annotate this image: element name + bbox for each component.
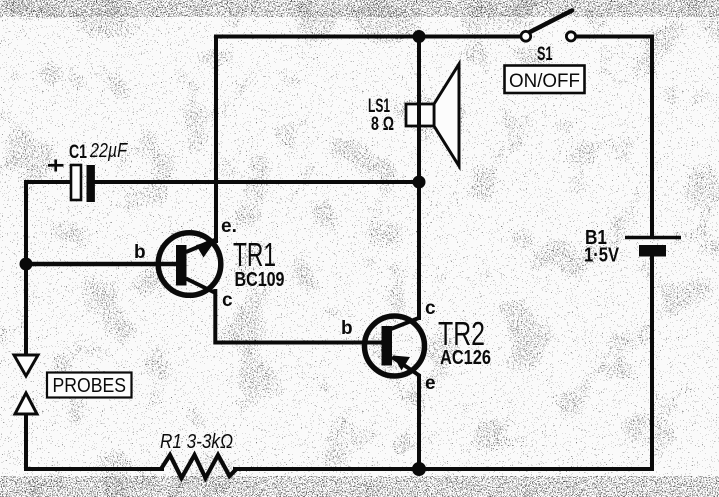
wire: TR2 collector branch (capacitor node down to TR2) — [417, 182, 421, 318]
wire: speaker branch vertical (top rail to capacitor node) — [417, 37, 421, 183]
svg-text:e: e — [425, 373, 436, 394]
label LS1 8Ω — [368, 96, 394, 135]
wire: top rail right from switch to right rail corner — [576, 35, 653, 39]
svg-text:b: b — [341, 318, 353, 339]
capacitor C1 — [71, 165, 95, 202]
wire: TR1 base wire — [26, 262, 176, 267]
PROBES label box — [47, 373, 132, 398]
battery B1 — [625, 238, 681, 257]
label TR2 AC126 — [438, 315, 491, 369]
label B1 1.5V — [584, 227, 620, 267]
probe tip lower (up arrow) — [15, 393, 37, 414]
junction node: top rail / speaker branch — [413, 30, 426, 43]
svg-text:TR1: TR1 — [233, 236, 276, 273]
junction node: left rail / TR1 base — [20, 258, 33, 271]
plus sign of C1 — [48, 160, 64, 172]
svg-text:S1: S1 — [537, 44, 553, 65]
junction node: capacitor row / TR2 branch — [413, 176, 426, 189]
wire: capacitor row (left rail to C1) — [26, 182, 71, 355]
svg-text:1·5V: 1·5V — [584, 245, 620, 267]
wire: capacitor output to speaker node — [95, 180, 419, 184]
wire: TR2 emitter to bottom rail — [417, 376, 421, 469]
label C1 22µF — [69, 140, 128, 163]
svg-text:C1: C1 — [69, 142, 87, 163]
ON/OFF label box — [505, 66, 585, 94]
svg-text:BC109: BC109 — [235, 269, 285, 291]
wire: top rail left (node between TR1 emitter line top and switch) — [216, 37, 521, 242]
wire: bottom rail (R1 to TR2 node) — [235, 467, 419, 471]
probe tip upper (down arrow) — [14, 355, 38, 376]
resistor R1 — [161, 455, 236, 478]
svg-text:c: c — [222, 290, 233, 311]
svg-text:PROBES: PROBES — [53, 375, 127, 397]
transistor TR1 (BC109, NPN) — [158, 233, 221, 296]
svg-text:8 Ω: 8 Ω — [371, 114, 394, 135]
junction node: bottom rail / TR2 emitter — [412, 462, 426, 476]
wire: right rail lower (battery to bottom rail) — [419, 256, 652, 469]
transistor TR2 (AC126, PNP) — [365, 316, 425, 376]
svg-text:c: c — [425, 298, 436, 319]
svg-text:AC126: AC126 — [440, 347, 491, 369]
svg-text:R1 3-3kΩ: R1 3-3kΩ — [160, 431, 233, 453]
label TR1 BC109 — [233, 236, 285, 291]
svg-text:22µF: 22µF — [89, 140, 128, 162]
speaker LS1 — [406, 64, 459, 166]
wire: probes lower lead to bottom rail — [26, 414, 162, 469]
svg-text:e.: e. — [221, 216, 237, 237]
wire: right rail upper (switch to battery top plate) — [650, 37, 654, 237]
switch S1 — [521, 11, 576, 42]
svg-text:ON/OFF: ON/OFF — [509, 70, 580, 92]
wire: TR1 collector to TR2 base — [215, 291, 382, 343]
svg-text:b: b — [134, 242, 146, 263]
